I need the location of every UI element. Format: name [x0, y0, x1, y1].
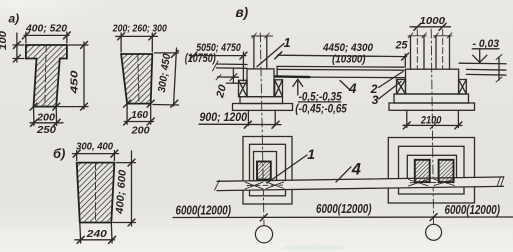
section a T-shape outline [26, 45, 67, 107]
svg-text:1000: 1000 [420, 15, 446, 27]
beam strip (plan) white band [217, 177, 500, 191]
leader for label 1 [257, 44, 284, 67]
trapezoid outline [121, 54, 152, 104]
svg-text:4: 4 [348, 81, 357, 96]
beam mid segment bottom [277, 68, 404, 71]
column 1 left edge [253, 36, 255, 69]
label v) [236, 5, 249, 20]
floor line mid thin [310, 76, 406, 79]
svg-text:-0,5;-0,35: -0,5;-0,35 [299, 92, 343, 104]
dim 20 vertical [232, 69, 234, 83]
leader 2 [379, 72, 404, 88]
dim 400;600 (right) [131, 151, 133, 226]
floor line mid: bold part [275, 75, 310, 78]
floor line left of pedestal [218, 76, 239, 78]
label 4 (plan) [336, 167, 351, 182]
column 1 right edge [266, 36, 268, 69]
svg-text:3: 3 [372, 93, 379, 107]
svg-text:б): б) [53, 146, 65, 161]
svg-text:- 0,03: - 0,03 [473, 38, 500, 50]
extension line at pedestal axis [242, 52, 244, 81]
dim 300;450 (right) [174, 48, 177, 106]
right foundation axis (dash-dot) [431, 29, 433, 224]
beam strip left end cut [215, 180, 220, 190]
dim 400;520 line [24, 34, 69, 36]
left base slab [233, 104, 293, 111]
beam mid segment top [277, 65, 404, 68]
faint teal smudge bottom center [282, 245, 346, 251]
left X-box right [275, 80, 283, 97]
svg-text:а): а) [9, 12, 20, 26]
beam left segment bottom [217, 67, 248, 69]
left X-box left [239, 80, 248, 96]
svg-text:400; 520: 400; 520 [25, 23, 67, 35]
svg-text:1: 1 [307, 146, 315, 162]
svg-text:300, 400: 300, 400 [76, 141, 113, 153]
dim line 6000 row [173, 216, 513, 219]
dim 300,400 [73, 153, 119, 155]
svg-text:(10300): (10300) [332, 54, 366, 66]
extension at beam right end [404, 54, 406, 67]
dim 100 (left) [16, 33, 18, 62]
svg-text:900; 1200: 900; 1200 [200, 112, 248, 124]
leader 1 (plan) [267, 155, 307, 183]
right below-slab extensions [406, 110, 408, 127]
left plan middle rect [250, 144, 286, 196]
left below-slab extensions [247, 110, 249, 125]
right axis circle [426, 224, 442, 240]
left step [240, 97, 283, 104]
svg-text:100: 100 [0, 31, 9, 50]
dim 200 under trapezoid [126, 104, 128, 125]
right base slab [389, 103, 475, 110]
floor line right [459, 62, 506, 65]
center dashed [95, 163, 97, 223]
svg-text:(-0,45;-0,65: (-0,45;-0,65 [295, 104, 347, 116]
right plan outer rect [388, 138, 474, 204]
left axis circle [255, 226, 272, 243]
svg-text:4450; 4300: 4450; 4300 [322, 42, 374, 54]
right plan inner rect [407, 155, 456, 186]
svg-text:200; 260; 300: 200; 260; 300 [112, 22, 167, 34]
dim 160 ticks on bottom edge [124, 100, 131, 107]
svg-text:4: 4 [351, 161, 361, 179]
dim 1000 [410, 26, 451, 28]
dim 2100 [403, 124, 462, 126]
dim 4450;4300 [278, 55, 407, 56]
svg-text:2100: 2100 [420, 115, 442, 127]
dim 450 (right) [83, 42, 85, 109]
leader 3 [379, 82, 402, 100]
right plan middle rect [399, 146, 465, 194]
section a center dashed line [45, 45, 46, 107]
right end extension [498, 57, 500, 80]
beam right segment bottom [466, 73, 506, 76]
level mark -0,03 [472, 48, 499, 50]
beam left cut tick [213, 61, 219, 71]
svg-text:240: 240 [86, 228, 107, 240]
right column 1 [410, 36, 412, 69]
svg-text:6000(12000): 6000(12000) [176, 203, 232, 218]
level mark -0,5 [293, 79, 298, 86]
svg-text:6000(12000): 6000(12000) [445, 202, 501, 217]
column 1 break cap [251, 35, 272, 37]
left column axis (dash-dot) [260, 33, 264, 225]
left pedestal [247, 69, 274, 97]
left plan outer rect [243, 137, 292, 205]
svg-text:200: 200 [131, 125, 150, 137]
beam right segment top [466, 68, 506, 71]
label a) [9, 12, 20, 26]
right plan beam-seat X marks [409, 180, 429, 186]
dim 240 [79, 223, 82, 244]
svg-text:1: 1 [284, 36, 291, 50]
left plan column square [257, 162, 271, 180]
svg-text:250: 250 [36, 124, 56, 136]
dim 250 line [33, 107, 36, 126]
label b) [53, 146, 65, 161]
svg-text:200: 200 [36, 111, 55, 123]
right X-box right [459, 80, 467, 95]
svg-text:25: 25 [395, 40, 409, 52]
trapezoid center dashed [138, 54, 139, 104]
trapezoid b outline [77, 163, 115, 223]
right plan column squares [415, 160, 430, 182]
right step [394, 94, 469, 103]
label 4 elevation [340, 81, 350, 91]
svg-text:450: 450 [68, 70, 80, 95]
left plan beam-seat X marks [245, 182, 263, 189]
dim 200 ticks on stem bottom [30, 103, 37, 110]
svg-text:(10750): (10750) [185, 53, 216, 65]
beam strip right break [497, 177, 501, 187]
left plan inner rect [254, 152, 277, 187]
dim 900;1200 [199, 123, 281, 125]
beam end right of left pedestal [276, 66, 278, 76]
svg-text:в): в) [236, 5, 249, 20]
dim 200;260;300 [116, 35, 158, 37]
lower extension line [226, 82, 247, 84]
right X-box left [397, 80, 406, 95]
right pedestal [406, 69, 459, 94]
beam left segment top [217, 63, 248, 66]
dim 5050;4750 line [190, 55, 247, 57]
svg-text:6000(12000): 6000(12000) [316, 201, 372, 216]
right column 2 [435, 36, 437, 69]
svg-text:160: 160 [131, 109, 148, 121]
